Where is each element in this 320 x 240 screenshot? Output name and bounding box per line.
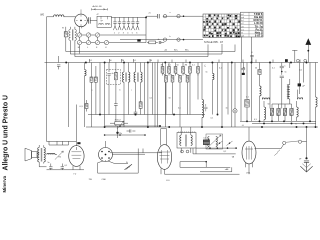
capacitor C16 (130, 129, 131, 132)
wire cap stubs above bus (90, 59, 301, 63)
wire bottom link (108, 161, 128, 163)
wire table drop 2 (250, 37, 252, 63)
tube V4 (157, 145, 171, 170)
coil L9 (298, 98, 303, 100)
wire to matrix row1 (146, 15, 203, 17)
transformer T3 (124, 63, 128, 73)
svg-text:50: 50 (110, 60, 112, 62)
capacitor C10 in box (107, 63, 110, 115)
wire v x165.3 (164, 63, 166, 128)
svg-text:50: 50 (268, 104, 270, 106)
wire bus y123 (252, 122, 316, 124)
tube V1 (oscillator, top view) (75, 14, 88, 27)
antenna arrow (307, 45, 309, 63)
wire h stub y135 (105, 134, 145, 136)
transformer T4 (136, 63, 141, 73)
svg-text:0,1: 0,1 (219, 68, 222, 70)
band switch matrix S2 (203, 14, 240, 38)
wire bus y127 (86, 126, 318, 128)
svg-text:6,3: 6,3 (254, 119, 257, 121)
capacitor C17 dark (203, 140, 210, 145)
svg-text:50: 50 (150, 60, 152, 62)
wire bus y121 (240, 120, 316, 122)
lamp LA1 (234, 63, 236, 109)
svg-text:0,1: 0,1 (65, 165, 68, 167)
title text Allegro U und Presto U (rotated) (2, 95, 9, 170)
potentiometer arrow (117, 121, 124, 129)
svg-text:0,1: 0,1 (168, 64, 171, 66)
svg-text:5n: 5n (206, 72, 208, 74)
wire bottom-left bus (47, 169, 85, 171)
resistor R23 horizontal (115, 122, 124, 125)
svg-text:5n: 5n (48, 162, 50, 164)
junction dots main bus (65, 62, 67, 64)
capacitor C12 (135, 82, 137, 112)
wire v x144 (144, 63, 146, 115)
wire v x270 (269, 63, 271, 109)
svg-text:0,1: 0,1 (150, 98, 153, 100)
capacitor C24 dark (298, 63, 300, 84)
svg-text:774.12: 774.12 (115, 119, 122, 121)
svg-text:0,2: 0,2 (300, 70, 303, 72)
svg-text:2M: 2M (185, 64, 188, 66)
wire v x222 (221, 63, 223, 128)
svg-text:47: 47 (97, 14, 99, 16)
capacitor C9 (57, 56, 60, 69)
wire L1 to V1 (64, 16, 76, 18)
svg-text:c: c (131, 90, 132, 92)
svg-text:1n: 1n (226, 108, 228, 110)
svg-text:0,1: 0,1 (90, 60, 93, 62)
wire v x251 (250, 63, 252, 122)
chassis steps outline (47, 141, 77, 145)
capacitor C13 (204, 104, 207, 111)
IF can T5 box (177, 133, 196, 149)
svg-text:5n: 5n (285, 72, 287, 74)
rectifier bank R19-R22 (270, 109, 273, 116)
svg-text:2M: 2M (122, 60, 125, 62)
wire v x157.6 (157, 63, 159, 128)
svg-text:21: 21 (149, 13, 151, 15)
wires speaker to T6 (37, 153, 39, 157)
wires between rows (163, 73, 199, 76)
choke L4 (201, 63, 203, 100)
svg-text:4n: 4n (158, 39, 160, 41)
coil unit box (206, 134, 223, 149)
capacitor trimmer bank C2-C7 (113, 17, 139, 30)
switch contact row1 b (177, 15, 180, 18)
title text Minerva (rotated) (2, 175, 7, 192)
wire v x100 (99, 63, 101, 115)
choke L3 (211, 63, 213, 74)
wire V1 to switch (80, 27, 82, 33)
wire v x68 (67, 63, 69, 128)
wire to matrix row2 (120, 39, 203, 41)
switch contact row2 b (177, 38, 180, 41)
svg-text:0 AT 5: 0 AT 5 (255, 34, 263, 38)
junction dot x306 (305, 157, 307, 159)
svg-text:0,1: 0,1 (272, 68, 275, 70)
coil L5 (259, 63, 261, 86)
wire bus y148 (196, 147, 236, 149)
svg-text:ε: ε (285, 66, 286, 68)
coil L10 (296, 101, 298, 107)
wire bus y167 (180, 166, 230, 168)
capacitor C25 (242, 68, 246, 70)
wire V1 top stub (80, 9, 82, 14)
coil L2 (83, 63, 85, 70)
coil L1 antenna (54, 15, 64, 17)
wires resistor row1 stubs (163, 63, 199, 67)
svg-text:0,5: 0,5 (203, 138, 206, 140)
wire V3 top (105, 141, 107, 148)
capacitor C18 (50, 164, 52, 167)
capacitor C23 dark blob (285, 59, 288, 62)
capacitor C19 (61, 164, 63, 167)
svg-text:b: b (170, 36, 171, 38)
svg-text:0,1: 0,1 (134, 60, 137, 62)
wires slash caps (217, 141, 233, 146)
table of connections (241, 12, 264, 37)
switch S3 mains (283, 141, 286, 144)
wire S1 row2 links (82, 42, 146, 44)
svg-text:50: 50 (169, 98, 171, 100)
capacitor C11 (114, 104, 118, 106)
coil L12 tone (47, 153, 55, 154)
svg-text:8,2: 8,2 (224, 151, 227, 153)
output transformer T6 (38, 148, 40, 163)
wire v x217.5 (217, 63, 219, 115)
wire C1 to can (92, 19, 97, 21)
switch contact row1 a (163, 15, 166, 18)
switch contact row2 a (163, 38, 166, 41)
capacitor C15 (251, 58, 253, 63)
wire v x231.8 (231, 63, 233, 128)
wire S1 column links (80, 37, 98, 40)
wire R1 stubs (65, 27, 67, 32)
wire table drop 1 (241, 37, 243, 63)
wire antenna input top (47, 16, 54, 18)
wire nested bus 1 (66, 37, 235, 52)
wires resistor row outlets (163, 73, 199, 127)
coil L11 right edge (315, 63, 317, 98)
label A=50-80 dimension (92, 8, 108, 10)
wire v x310 (309, 63, 311, 122)
svg-text:Allegro U und Presto U: Allegro U und Presto U (2, 95, 9, 170)
fuse Si (125, 164, 133, 170)
resistor R25 (149, 41, 156, 44)
capacitor C22 dark blob (137, 39, 140, 41)
coil L8 (289, 63, 291, 69)
svg-text:0,1: 0,1 (192, 64, 195, 66)
speaker LS1 (25, 148, 32, 161)
svg-text:0,1: 0,1 (211, 118, 214, 120)
transformer T2 antenna coil (69, 29, 71, 40)
junction rings V4 (181, 150, 184, 153)
wire T6 bottom (39, 162, 46, 167)
antenna T stub (292, 50, 297, 62)
switch S1 wafer row 2 (77, 40, 81, 44)
wire bus y172 (200, 167, 232, 172)
svg-text:WG: WG (40, 15, 44, 17)
wire h stub y126 (105, 125, 160, 127)
wire main bus (45, 62, 319, 64)
coil L6 (263, 98, 270, 99)
resistor R17 (246, 63, 248, 100)
tube V2 (69, 146, 84, 167)
resistor R1 (64, 32, 67, 37)
tube V5 (242, 141, 256, 164)
wire V5 right (255, 148, 282, 150)
svg-text:2M: 2M (243, 68, 246, 70)
wire S1 row1 links (82, 34, 146, 36)
ground arrow (306, 162, 308, 171)
resistor R18 (258, 70, 261, 75)
capacitor C14 (281, 63, 283, 67)
svg-text:Minerva: Minerva (2, 175, 7, 192)
filter box dashed (107, 70, 121, 85)
wire v x303 (303, 63, 305, 83)
resistor R5 (140, 82, 142, 102)
capacitor C20 (304, 161, 309, 163)
svg-text:S=M+E 805 · AT: S=M+E 805 · AT (204, 40, 223, 44)
svg-text:50: 50 (177, 64, 179, 66)
wire h rect bank top (272, 103, 292, 105)
resistor row R13-R16 (165, 76, 168, 83)
tube V3 socket (99, 148, 113, 162)
junction blob (116, 132, 118, 134)
svg-text:0,5: 0,5 (178, 108, 181, 110)
wire V3 bottom diagonal (98, 149, 143, 174)
resistor R3 (95, 66, 97, 77)
wire bus y114 (88, 114, 205, 116)
wire nested bus 3 (75, 40, 208, 56)
capacitor C1 trimmer pair (89, 17, 91, 23)
IF can T1 box (97, 16, 111, 27)
wire nested bus 2 (70, 40, 222, 54)
svg-text:b: b (120, 90, 121, 92)
resistor R4 in box (115, 63, 117, 73)
svg-text:W: W (62, 28, 64, 30)
wire top bus from can (111, 16, 146, 18)
svg-text:A=50·-80: A=50·-80 (93, 5, 103, 8)
svg-text:1M: 1M (161, 64, 164, 66)
junction dots lower buses (104, 126, 106, 128)
wire T6 top to chassis box (39, 145, 44, 148)
wire T2 top legs (70, 27, 75, 30)
coil L7 (263, 101, 265, 107)
wire bus y162 (180, 161, 206, 163)
wire v x241 (240, 63, 242, 122)
resistor R6 small (85, 104, 88, 109)
wire v x306 mains (306, 127, 308, 158)
svg-text:50: 50 (255, 68, 257, 70)
switch contacts on bus (297, 59, 300, 62)
svg-text:+AB: +AB (225, 168, 230, 171)
potentiometer R24 (55, 151, 63, 160)
wire mains stub right (277, 148, 281, 153)
wire v connectors cluster (180, 148, 206, 167)
wire V4 bottom (161, 169, 240, 175)
resistor R2 (91, 63, 93, 78)
svg-text:0,1: 0,1 (246, 97, 249, 99)
wire v x228 (227, 63, 229, 115)
capacitor C8 (158, 14, 160, 18)
wire v x152.5 (152, 63, 154, 115)
wire v x104 (104, 63, 106, 128)
wire bus y154 (193, 153, 236, 155)
wire left vertical bus (46, 17, 48, 142)
wire v x155 (154, 63, 156, 128)
resistor row R7-R12 (161, 67, 164, 74)
wire v x147.9 (147, 63, 149, 128)
wire junction drop x146 (145, 17, 147, 42)
switch S1 wafer row 1 (77, 33, 81, 37)
capacitor C21 (159, 41, 161, 44)
